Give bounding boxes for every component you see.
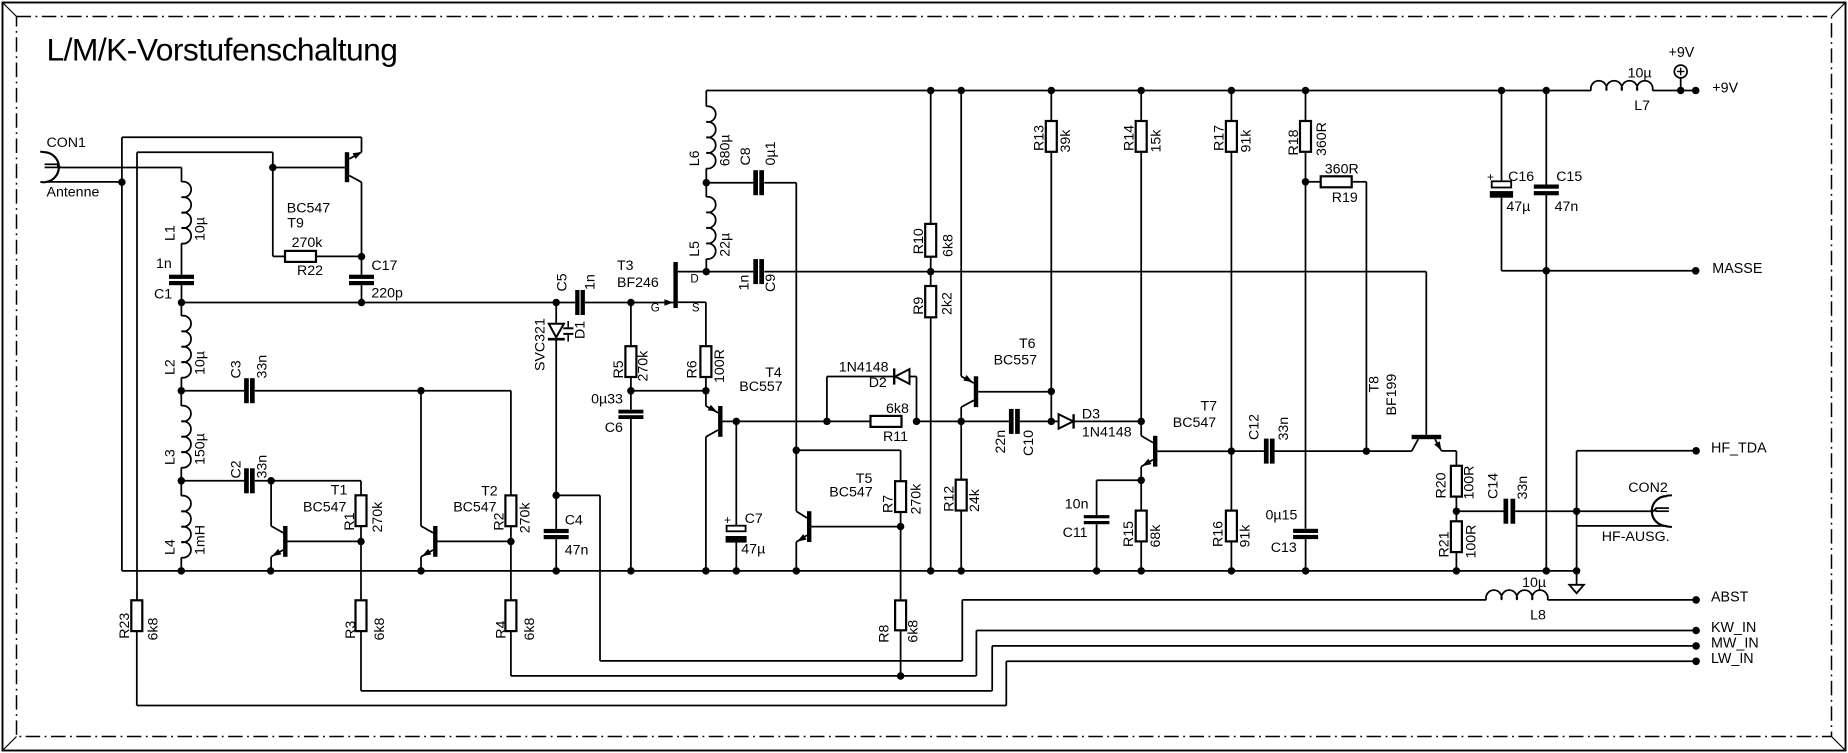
wire D3 cathode to node	[1074, 420, 1142, 422]
svg-text:BC557: BC557	[739, 379, 782, 395]
wire C3 line right	[255, 390, 511, 392]
wire T2 emitter	[420, 557, 422, 571]
svg-text:C11: C11	[1063, 525, 1088, 541]
label C12	[1247, 414, 1263, 440]
svg-text:100R: 100R	[1461, 466, 1477, 500]
label R22	[297, 263, 323, 279]
svg-text:22n: 22n	[993, 430, 1009, 454]
junction gnd C13	[1302, 567, 1310, 575]
wire C16 top lead	[1501, 91, 1503, 182]
junction rail C16	[1498, 87, 1506, 95]
svg-text:BF199: BF199	[1384, 374, 1400, 416]
label T1	[331, 483, 348, 499]
wire R22 to C17 node	[316, 255, 362, 257]
label R23 value 6k8	[145, 618, 161, 641]
label C2	[228, 460, 244, 478]
capacitor C9	[753, 259, 764, 284]
junction L6/L5/C8	[703, 179, 711, 187]
label L3	[163, 449, 179, 465]
label R7	[880, 495, 896, 513]
label S	[692, 302, 700, 314]
label L4	[163, 539, 179, 555]
resistor R19	[1321, 176, 1352, 187]
wire R22 left lead	[273, 255, 285, 257]
svg-text:6k8: 6k8	[145, 618, 161, 641]
wire CON1 pin to L1	[60, 167, 182, 169]
svg-text:D: D	[690, 273, 698, 285]
terminal KW_IN	[1692, 627, 1700, 635]
svg-text:R16: R16	[1211, 521, 1227, 547]
label R11	[883, 429, 908, 445]
svg-text:1n: 1n	[583, 274, 599, 290]
svg-text:24k: 24k	[967, 488, 983, 512]
junction R10/R9 node	[927, 268, 935, 276]
wire R20 bottom lead	[1455, 497, 1457, 512]
wire T4 emitter lead	[705, 391, 707, 406]
label C9	[763, 274, 779, 292]
svg-text:22µ: 22µ	[717, 233, 733, 257]
wire R13 top lead	[1050, 91, 1052, 122]
svg-text:HF_TDA: HF_TDA	[1711, 441, 1767, 457]
wire R4 bottom	[510, 631, 512, 676]
wire C5 to gate	[585, 302, 631, 304]
label BC547 T7	[1173, 415, 1216, 431]
label R18 value 360R	[1314, 122, 1330, 156]
label R17	[1212, 125, 1228, 151]
label C11 value 10n	[1065, 497, 1089, 513]
wire C12 to T8 base node	[1275, 450, 1367, 452]
junction R18/R19	[1302, 178, 1310, 186]
capacitor C10	[1009, 409, 1020, 434]
wire T8 emitter wire	[1441, 450, 1456, 452]
svg-text:BC547: BC547	[287, 201, 330, 217]
label BC547 T5	[829, 485, 872, 501]
capacitor C1	[169, 275, 194, 286]
svg-text:R6: R6	[685, 360, 701, 378]
wire T5 emitter lead	[795, 542, 797, 571]
svg-text:C1: C1	[154, 287, 172, 303]
junction rail R13	[1048, 87, 1056, 95]
junction R20/R21/C14	[1453, 507, 1461, 515]
svg-text:KW_IN: KW_IN	[1711, 620, 1756, 636]
svg-text:680µ: 680µ	[717, 134, 733, 166]
label R5	[611, 360, 627, 378]
label R14 value 15k	[1149, 129, 1165, 153]
label C7	[745, 511, 763, 527]
svg-text:SVC321: SVC321	[533, 318, 549, 371]
label T6	[1019, 336, 1036, 352]
svg-text:R1: R1	[342, 512, 358, 530]
wire +9V rail	[706, 90, 1591, 92]
junction gnd L4	[178, 567, 186, 575]
wire R7 bottom lead	[900, 512, 902, 527]
wire T5 collector lead	[795, 450, 797, 511]
svg-text:+9V: +9V	[1712, 81, 1738, 97]
label C9 value 1n	[736, 275, 752, 291]
label HF-AUSG.	[1602, 529, 1670, 545]
arrow T2 emitter	[422, 549, 431, 556]
svg-text:47µ: 47µ	[741, 542, 765, 558]
resistor R6	[700, 346, 711, 377]
label MW_IN	[1711, 635, 1759, 651]
junction T4 base/C7	[733, 418, 741, 426]
capacitor C2	[244, 468, 255, 493]
inductor L3	[181, 406, 191, 468]
svg-text:BC547: BC547	[829, 485, 872, 501]
transistor T3 BF246	[631, 262, 706, 308]
svg-text:R11: R11	[883, 429, 908, 445]
junction C10/D3/T6base	[1048, 418, 1056, 426]
wire L6 top lead	[705, 91, 707, 107]
label L2	[163, 359, 179, 375]
wire ground rail	[122, 570, 1577, 572]
wire R23 drop	[136, 152, 138, 600]
svg-text:CON1: CON1	[47, 135, 87, 151]
label C3	[228, 360, 244, 378]
arrow T7 emitter	[1142, 459, 1151, 466]
label R1	[342, 512, 358, 530]
transistor T4	[706, 406, 736, 437]
junction R8/KW line	[897, 672, 905, 680]
svg-text:T2: T2	[481, 484, 498, 500]
inductor L5	[706, 197, 715, 259]
wire R1 top drop	[360, 481, 362, 496]
svg-text:R19: R19	[1332, 190, 1358, 206]
label R15	[1121, 521, 1137, 547]
transistor T9	[345, 152, 362, 182]
svg-text:MW_IN: MW_IN	[1711, 635, 1759, 651]
svg-text:R23: R23	[117, 613, 133, 639]
wire tank line	[182, 302, 576, 304]
wire C15 top lead	[1545, 91, 1547, 185]
svg-text:C14: C14	[1486, 473, 1502, 499]
wire C16 bottom lead	[1501, 198, 1503, 271]
wire ground drop left	[121, 137, 123, 571]
label L7	[1634, 98, 1650, 114]
wire R9 top lead	[930, 272, 932, 286]
label R2 value 270k	[517, 502, 533, 534]
connector CON2	[1652, 495, 1672, 527]
wire L1 top lead	[181, 168, 183, 182]
label R13	[1032, 125, 1048, 151]
junction rail R18	[1302, 87, 1310, 95]
label L1 value 10µ	[193, 217, 209, 241]
terminal MASSE	[1692, 267, 1700, 275]
label R22 value 270k	[292, 235, 324, 251]
svg-text:+9V: +9V	[1669, 45, 1695, 61]
svg-text:68k: 68k	[1148, 524, 1164, 548]
svg-text:L8: L8	[1530, 608, 1546, 624]
junction D1/C4	[552, 492, 560, 500]
wire R3 bottom	[360, 631, 362, 691]
svg-text:270k: 270k	[636, 350, 652, 382]
junction gnd T5	[793, 567, 801, 575]
wire R9 to ground	[930, 317, 932, 571]
wire T9 base vertical	[272, 152, 274, 256]
wire C8 line	[706, 182, 753, 184]
junction L5/D	[703, 268, 711, 276]
svg-text:6k8: 6k8	[886, 401, 909, 417]
wire R12 bottom lead	[960, 511, 962, 571]
svg-text:R22: R22	[297, 263, 323, 279]
wire C11 bottom lead	[1096, 524, 1098, 571]
wire R23 bottom	[136, 631, 138, 705]
label L6	[687, 150, 703, 166]
label L5	[687, 241, 703, 257]
svg-text:R14: R14	[1122, 125, 1138, 151]
label R18	[1286, 129, 1302, 155]
wire KW route	[511, 631, 1696, 676]
wire R2 top drop	[510, 391, 512, 496]
svg-text:R10: R10	[911, 228, 927, 254]
label R4 value 6k8	[522, 618, 538, 641]
wire L6 bottom lead	[705, 168, 707, 182]
wire D2 right drop	[916, 377, 918, 422]
label C15 value 47n	[1555, 199, 1579, 215]
label C13	[1271, 540, 1297, 556]
wire C15 to ground rail	[1545, 271, 1547, 571]
junction gnd R9	[927, 567, 935, 575]
junction gnd R21	[1453, 567, 1461, 575]
svg-text:BC557: BC557	[994, 353, 1037, 369]
inductor L7	[1591, 81, 1653, 91]
capacitor C4	[544, 529, 569, 539]
wire ABST route	[600, 600, 1486, 661]
svg-text:10µ: 10µ	[1522, 575, 1546, 591]
junction gnd R15	[1137, 567, 1145, 575]
wire R2 bottom	[510, 526, 512, 541]
label L8 value 10µ	[1522, 575, 1546, 591]
wire C17 top lead	[361, 257, 363, 275]
arrow T5 emitter	[797, 534, 806, 541]
wire HF_TDA line	[1577, 450, 1697, 452]
svg-text:10µ: 10µ	[193, 217, 209, 241]
svg-text:360R: 360R	[1325, 162, 1359, 178]
svg-text:C6: C6	[605, 420, 623, 436]
wire R1 bottom	[360, 526, 362, 541]
capacitor C16 electrolytic	[1490, 181, 1513, 197]
resistor R18	[1300, 121, 1311, 152]
junction gnd R12	[957, 567, 965, 575]
wire C15 bottom lead	[1545, 195, 1547, 271]
svg-text:S: S	[692, 302, 700, 314]
junction CON2 tap	[1573, 507, 1581, 515]
label ABST	[1711, 590, 1749, 606]
label R15 value 68k	[1148, 524, 1164, 548]
svg-text:150µ: 150µ	[193, 433, 209, 465]
label R3	[343, 621, 359, 639]
svg-text:91k: 91k	[1239, 129, 1255, 153]
svg-text:C4: C4	[565, 513, 583, 529]
svg-text:T9: T9	[287, 216, 304, 232]
wire T6 emitter to rail	[960, 91, 962, 377]
svg-text:33n: 33n	[1276, 417, 1292, 441]
label 1N4148 D2	[839, 360, 889, 376]
wire R11 to T6 collector	[917, 420, 1009, 422]
connector CON1	[40, 152, 61, 183]
svg-text:33n: 33n	[255, 355, 271, 379]
wire T6 collector lead	[960, 407, 962, 421]
wire C14 line right	[1515, 510, 1654, 512]
svg-text:T8: T8	[1367, 376, 1383, 393]
junction T1 collector node	[267, 477, 275, 485]
wire drain line	[706, 271, 753, 273]
svg-text:R2: R2	[491, 512, 507, 530]
resistor R1	[356, 495, 367, 526]
resistor R10	[925, 224, 936, 257]
wire T7 base to C12	[1231, 450, 1264, 452]
label C12 value 33n	[1276, 417, 1292, 441]
wire MW route	[361, 646, 1696, 691]
svg-text:D3: D3	[1082, 407, 1100, 423]
terminal ABST	[1692, 596, 1700, 604]
transistor T1	[271, 526, 361, 557]
wire T9 base feed	[273, 167, 345, 169]
label C15	[1556, 169, 1582, 185]
label C8 value 0µ1	[763, 141, 779, 165]
resistor R11	[871, 416, 902, 427]
junction T8 base node	[1363, 447, 1371, 455]
wire LW route	[137, 661, 1696, 705]
capacitor C15	[1534, 185, 1559, 196]
svg-text:10µ: 10µ	[1628, 66, 1652, 82]
label HF_TDA	[1711, 441, 1767, 457]
svg-text:MASSE: MASSE	[1712, 261, 1762, 277]
svg-text:R13: R13	[1032, 125, 1048, 151]
label C6	[605, 420, 623, 436]
wire C10 to D3	[1020, 420, 1059, 422]
junction C8/T5 collector/R7	[793, 447, 801, 455]
label C7 plus	[724, 513, 731, 527]
resistor R13	[1046, 121, 1057, 152]
label C4 value 47n	[565, 543, 589, 559]
label 1N4148 D3	[1082, 425, 1132, 441]
wire R5 bottom lead	[630, 377, 632, 391]
title	[47, 32, 398, 68]
label C1 value 1n	[156, 256, 172, 272]
junction T6 collector node	[957, 418, 965, 426]
transistor T2	[421, 526, 511, 557]
svg-text:220p: 220p	[371, 286, 403, 302]
wire C4 top lead	[555, 495, 557, 529]
label R7 value 270k	[909, 483, 925, 515]
svg-text:C3: C3	[228, 360, 244, 378]
junction T6 base	[1048, 388, 1056, 396]
inductor L6	[706, 106, 715, 168]
junction D1 tank	[552, 299, 560, 307]
wire T5 collector line	[796, 449, 900, 451]
supply symbol +9V	[1674, 65, 1687, 90]
label R8	[876, 624, 892, 642]
wire L1 bottom lead	[181, 243, 183, 274]
wire R7 top drop	[900, 450, 902, 481]
label C17 value 220p	[371, 286, 403, 302]
wire MASSE line	[1502, 270, 1696, 272]
svg-text:CON2: CON2	[1628, 480, 1668, 496]
wire R13 bottom lead	[1050, 152, 1052, 392]
wire T9 emitter box top	[122, 136, 362, 138]
wire R8 feed	[900, 527, 902, 601]
wire D2 cathode wire	[910, 376, 917, 378]
label R13 value 39k	[1058, 129, 1074, 153]
wire L3 top lead	[180, 391, 182, 406]
junction gnd C6	[627, 567, 635, 575]
resistor R16	[1226, 511, 1237, 542]
wire ABST branch	[556, 494, 600, 496]
label BC557 T6	[994, 353, 1037, 369]
svg-text:BC547: BC547	[453, 500, 496, 516]
junction gnd R16	[1228, 567, 1236, 575]
capacitor C7 electrolytic	[726, 526, 747, 543]
label L8	[1530, 608, 1546, 624]
label KW_IN	[1711, 620, 1756, 636]
wire D2 left drop	[826, 377, 828, 422]
wire C7 top lead	[735, 421, 737, 525]
junction T2 base/R2	[507, 538, 515, 546]
svg-text:100R: 100R	[712, 349, 728, 383]
junction gnd C11	[1093, 567, 1101, 575]
resistor R8	[895, 600, 906, 630]
label R19	[1332, 190, 1358, 206]
svg-text:R21: R21	[1437, 531, 1453, 557]
svg-text:0µ1: 0µ1	[763, 141, 779, 165]
junction L2/L3	[178, 387, 186, 395]
svg-text:BF246: BF246	[617, 275, 659, 291]
label T7	[1201, 399, 1218, 415]
label R21	[1437, 531, 1453, 557]
inductor L1	[182, 182, 192, 244]
wire C11 drop	[1096, 480, 1098, 515]
label T2	[481, 484, 498, 500]
junction CON1 shield	[118, 178, 126, 186]
wire R19 left lead	[1306, 181, 1321, 183]
label R3 value 6k8	[372, 618, 388, 641]
wire R15 bottom lead	[1140, 541, 1142, 571]
wire T8 base wire	[1366, 450, 1411, 452]
resistor R21	[1451, 521, 1462, 552]
wire T9 base box	[137, 151, 273, 153]
terminal +9V	[1692, 87, 1700, 95]
resistor R3	[356, 600, 367, 631]
resistor R2	[505, 495, 516, 526]
wire R12 top lead	[960, 421, 962, 479]
junction R5/C6	[627, 387, 635, 395]
svg-text:L1: L1	[163, 225, 179, 241]
wire C3 line left	[181, 390, 244, 392]
svg-text:R12: R12	[941, 486, 957, 512]
svg-text:C10: C10	[1021, 430, 1037, 456]
wire R5 top lead	[630, 303, 632, 347]
svg-text:270k: 270k	[370, 501, 386, 533]
label C5	[555, 273, 571, 291]
svg-text:L2: L2	[163, 359, 179, 375]
wire C7 bottom lead	[735, 543, 737, 571]
wire L4 top lead	[180, 481, 182, 496]
svg-text:39k: 39k	[1058, 129, 1074, 153]
svg-text:BC547: BC547	[1173, 415, 1216, 431]
label C16 value 47µ	[1506, 199, 1530, 215]
svg-text:6k8: 6k8	[522, 618, 538, 641]
svg-text:L4: L4	[163, 539, 179, 555]
svg-text:47µ: 47µ	[1506, 199, 1530, 215]
wire C6 top lead	[630, 391, 632, 410]
wire C2 line left	[181, 480, 244, 482]
label C13 value 0µ15	[1266, 508, 1298, 524]
svg-text:91k: 91k	[1238, 524, 1254, 548]
svg-text:T1: T1	[331, 483, 348, 499]
label L7 value 10µ	[1628, 66, 1652, 82]
junction T7 base/R16/R17	[1228, 447, 1236, 455]
